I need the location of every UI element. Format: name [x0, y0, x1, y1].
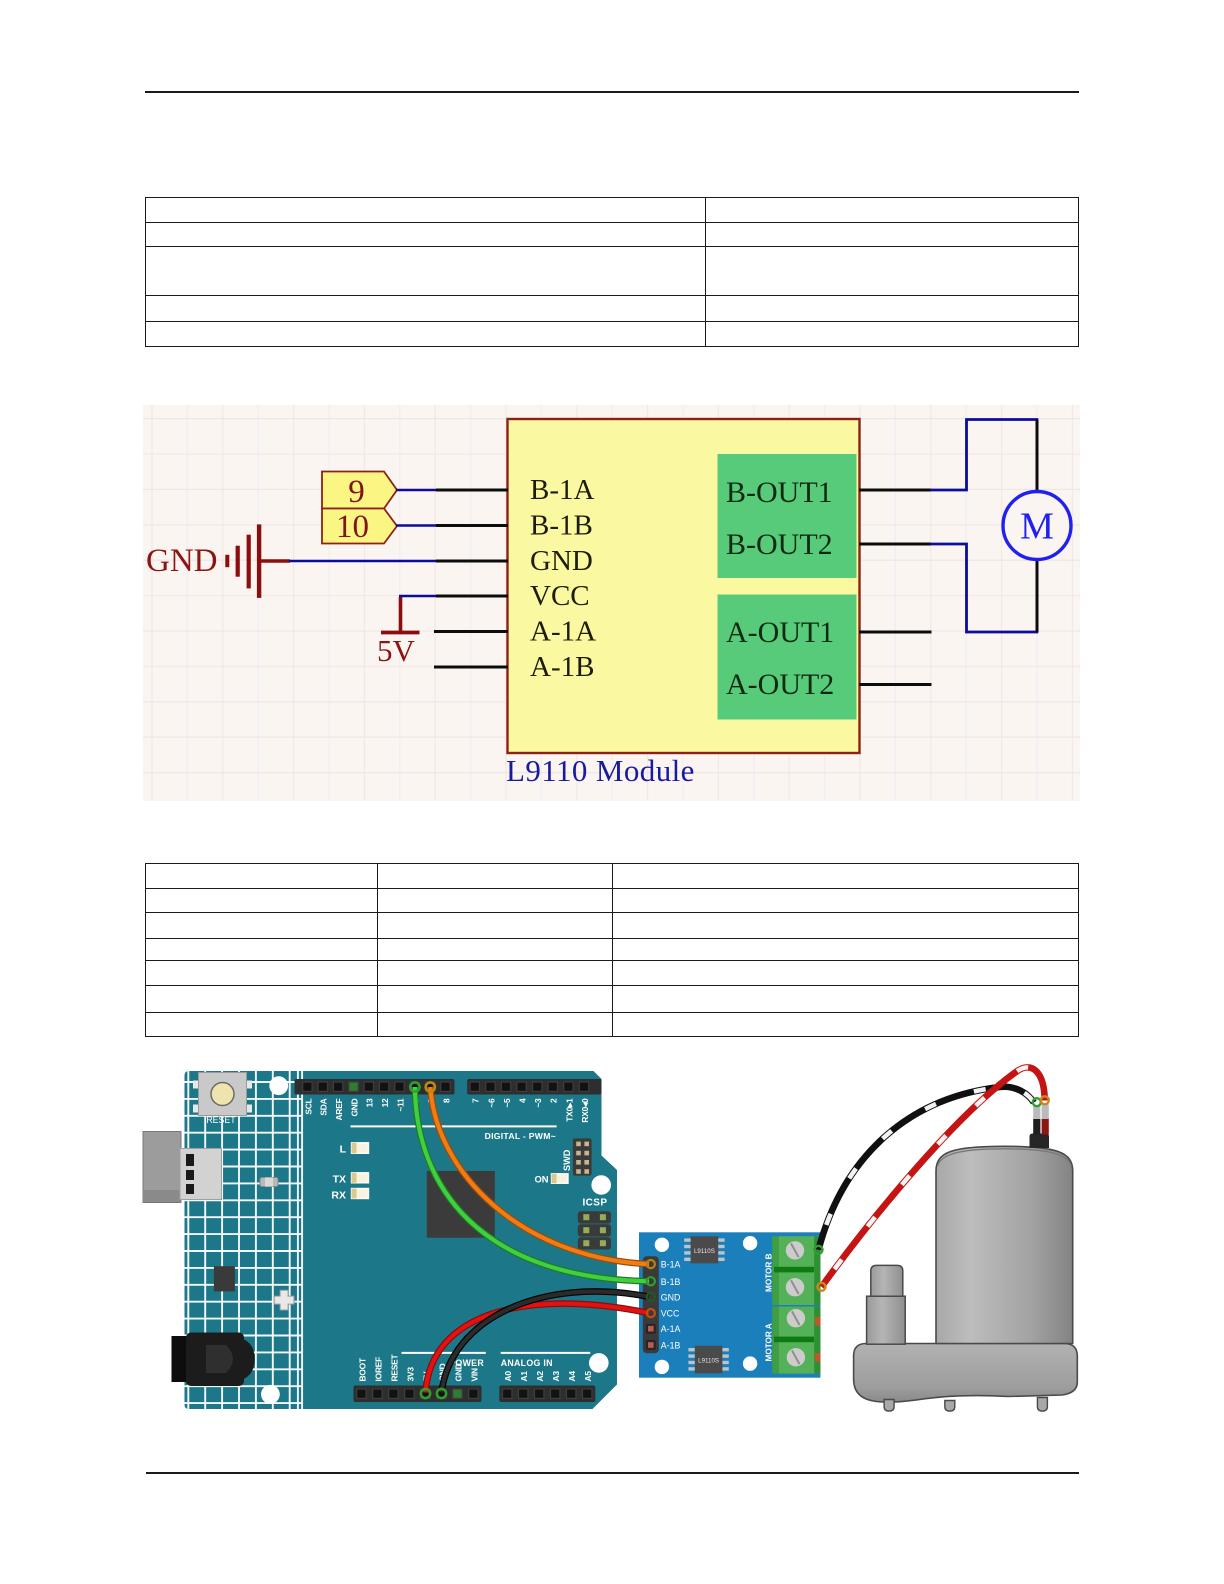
mounting holes [269, 1076, 288, 1095]
svg-text:8: 8 [441, 1098, 451, 1103]
pin stub A-1A (black) [434, 630, 508, 633]
DIGITAL - PWM~ silk [351, 1126, 557, 1141]
wire B-OUT2 to motor (blue) [930, 544, 1038, 632]
bottom rule [146, 1472, 1079, 1474]
fritzing SVG placeholder [140, 1050, 1100, 1425]
svg-text:A-1B: A-1B [530, 651, 594, 683]
svg-text:A-OUT1: A-OUT1 [726, 616, 834, 649]
table 2 (empty cells) [145, 863, 1079, 1037]
svg-text:4: 4 [518, 1098, 528, 1103]
svg-text:M: M [1020, 506, 1054, 548]
pump motor body [936, 1146, 1073, 1343]
schematic background [143, 405, 1080, 801]
flag 10 (net label) [322, 509, 397, 546]
wire 5V to VCC (blue) [399, 595, 437, 598]
pump outlet nozzle [867, 1265, 906, 1344]
svg-text:A-OUT2: A-OUT2 [726, 668, 834, 701]
ON LED [534, 1174, 568, 1185]
top rule [145, 91, 1079, 93]
svg-text:GND: GND [661, 1292, 681, 1302]
spare GND pin green [453, 1389, 462, 1398]
pin stub B-OUT2 (black) [859, 543, 931, 546]
svg-text:10: 10 [336, 509, 369, 545]
flag 9 (net label) [322, 472, 397, 511]
USB connector [143, 1132, 222, 1203]
pump base [854, 1344, 1078, 1403]
svg-text:DIGITAL - PWM~: DIGITAL - PWM~ [485, 1131, 556, 1141]
svg-text:SWD: SWD [562, 1149, 572, 1171]
pin stub GND (black) [436, 560, 508, 563]
ANALOG IN silk [501, 1353, 591, 1368]
svg-text:IOREF: IOREF [373, 1357, 383, 1382]
pin stub B-OUT1 (black) [859, 489, 931, 492]
ICSP header [578, 1198, 611, 1250]
black striped wire MOTOR B to pump [819, 1087, 1034, 1250]
digital pin labels [303, 1098, 590, 1123]
svg-text:A1: A1 [519, 1371, 529, 1382]
motor lead top (black) [1036, 420, 1039, 492]
motor lead bottom (black) [1036, 560, 1039, 632]
svg-text:TX: TX [333, 1174, 346, 1186]
L LED [340, 1143, 369, 1156]
POWER silk [402, 1353, 486, 1368]
svg-text:B-1A: B-1A [530, 474, 595, 506]
svg-text:MOTOR B: MOTOR B [765, 1253, 774, 1292]
svg-text:VIN: VIN [469, 1368, 479, 1382]
svg-text:ANALOG IN: ANALOG IN [501, 1358, 553, 1368]
RESET button [193, 1073, 252, 1126]
pin stub B-1A (black) [436, 489, 508, 492]
svg-text:L9110S: L9110S [698, 1358, 719, 1365]
module pin labels [661, 1260, 681, 1351]
svg-text:A4: A4 [567, 1371, 577, 1382]
svg-text:ICSP: ICSP [583, 1198, 608, 1209]
svg-text:A-1A: A-1A [661, 1324, 681, 1334]
pin stub A-OUT1 (black) [859, 631, 932, 634]
svg-text:5V: 5V [377, 633, 416, 668]
svg-text:L9110S: L9110S [694, 1248, 715, 1255]
svg-text:RX0◂0: RX0◂0 [580, 1098, 590, 1123]
Arduino UNO board [185, 1071, 618, 1409]
svg-text:SDA: SDA [319, 1098, 329, 1115]
svg-text:B-OUT1: B-OUT1 [726, 476, 833, 509]
module pins A-1A A-1B pads [646, 1324, 656, 1350]
power/analog pin labels [357, 1353, 593, 1381]
svg-text:~5: ~5 [502, 1098, 512, 1108]
green wire pin10 to B-1B [415, 1087, 649, 1281]
table 1 (empty cells) [145, 197, 1079, 347]
pump feet [884, 1398, 1047, 1412]
module IC U1 L9110S top [684, 1236, 724, 1263]
red wire 5V to VCC [426, 1304, 650, 1393]
MOTOR B terminal block [765, 1236, 821, 1305]
svg-text:VCC: VCC [530, 580, 590, 612]
pump terminal block [1030, 1105, 1050, 1149]
power header [354, 1386, 482, 1403]
power barrel jack [172, 1333, 255, 1387]
module IC U2 L9110S bottom [688, 1346, 728, 1374]
svg-text:7: 7 [471, 1098, 481, 1103]
svg-text:GND: GND [530, 545, 593, 577]
white plus mark [274, 1290, 294, 1310]
GND pin green [349, 1082, 358, 1091]
svg-text:RESET: RESET [389, 1353, 399, 1381]
wire flag10 to B-1B (blue) [396, 524, 437, 527]
pin stub B-1B (black) [436, 524, 508, 527]
analog header [499, 1386, 595, 1403]
svg-text:~6: ~6 [486, 1098, 496, 1108]
svg-text:L9110 Module: L9110 Module [506, 753, 695, 788]
TX LED [333, 1173, 369, 1186]
RX LED [331, 1189, 368, 1202]
svg-text:RX: RX [331, 1190, 346, 1202]
svg-text:AREF: AREF [334, 1098, 344, 1120]
pin stub A-1B (black) [434, 666, 508, 669]
module left header [643, 1256, 659, 1353]
wire B-OUT1 to motor (blue) [930, 420, 1038, 491]
svg-text:ON: ON [534, 1174, 548, 1185]
svg-text:A-1A: A-1A [530, 616, 596, 648]
MOTOR A terminal block [765, 1307, 821, 1374]
svg-text:GND: GND [146, 543, 218, 579]
svg-text:2: 2 [549, 1098, 559, 1103]
svg-text:A5: A5 [583, 1371, 593, 1382]
green block A-OUT [718, 595, 857, 720]
black wire GND to GND [442, 1291, 650, 1392]
svg-text:B-OUT2: B-OUT2 [726, 528, 833, 561]
green block B-OUT [718, 454, 857, 578]
svg-text:A2: A2 [535, 1371, 545, 1382]
main IC chip [427, 1171, 495, 1238]
svg-text:~11: ~11 [395, 1098, 405, 1112]
svg-text:SCL: SCL [303, 1098, 313, 1114]
svg-text:B-1B: B-1B [661, 1277, 681, 1287]
pump terminal rings [1033, 1098, 1041, 1106]
motor M1 [1003, 492, 1071, 560]
caption L9110 Module [506, 753, 695, 788]
svg-text:3V3: 3V3 [405, 1367, 415, 1382]
SWD header [562, 1138, 592, 1175]
svg-text:A-1B: A-1B [661, 1341, 681, 1351]
svg-text:TX0▸1: TX0▸1 [564, 1098, 574, 1122]
pin stub A-OUT2 (black) [859, 683, 932, 686]
wire end rings [410, 1082, 825, 1398]
svg-text:A0: A0 [503, 1371, 513, 1382]
small smd chip [214, 1266, 235, 1291]
svg-text:9: 9 [348, 474, 365, 510]
smd resistor [260, 1178, 278, 1187]
pin stub VCC (black) [436, 595, 508, 598]
red striped wire MOTOR B to pump [822, 1067, 1045, 1286]
svg-text:A3: A3 [551, 1371, 561, 1382]
L9110 driver module PCB [639, 1232, 820, 1377]
svg-text:VCC: VCC [661, 1309, 680, 1319]
digital header left [295, 1079, 455, 1095]
svg-text:~3: ~3 [533, 1098, 543, 1108]
module U1 L9110 body [508, 419, 860, 753]
svg-text:B-1B: B-1B [530, 510, 593, 542]
svg-text:13: 13 [365, 1098, 375, 1107]
orange wire pin9 to B-1A [430, 1087, 649, 1264]
svg-text:RESET: RESET [206, 1115, 236, 1125]
svg-text:BOOT: BOOT [357, 1357, 367, 1381]
ground symbol [146, 524, 290, 598]
schematic SVG placeholder [143, 405, 1080, 801]
digital header right [467, 1079, 601, 1095]
wire GND to module (blue) [289, 560, 437, 563]
power symbol 5V [377, 597, 420, 668]
svg-text:MOTOR A: MOTOR A [765, 1323, 774, 1361]
svg-text:B-1A: B-1A [661, 1260, 681, 1270]
svg-text:L: L [340, 1144, 347, 1156]
svg-text:12: 12 [380, 1098, 390, 1107]
wire flag9 to B-1A (blue) [396, 489, 437, 492]
svg-text:GND: GND [349, 1098, 359, 1116]
